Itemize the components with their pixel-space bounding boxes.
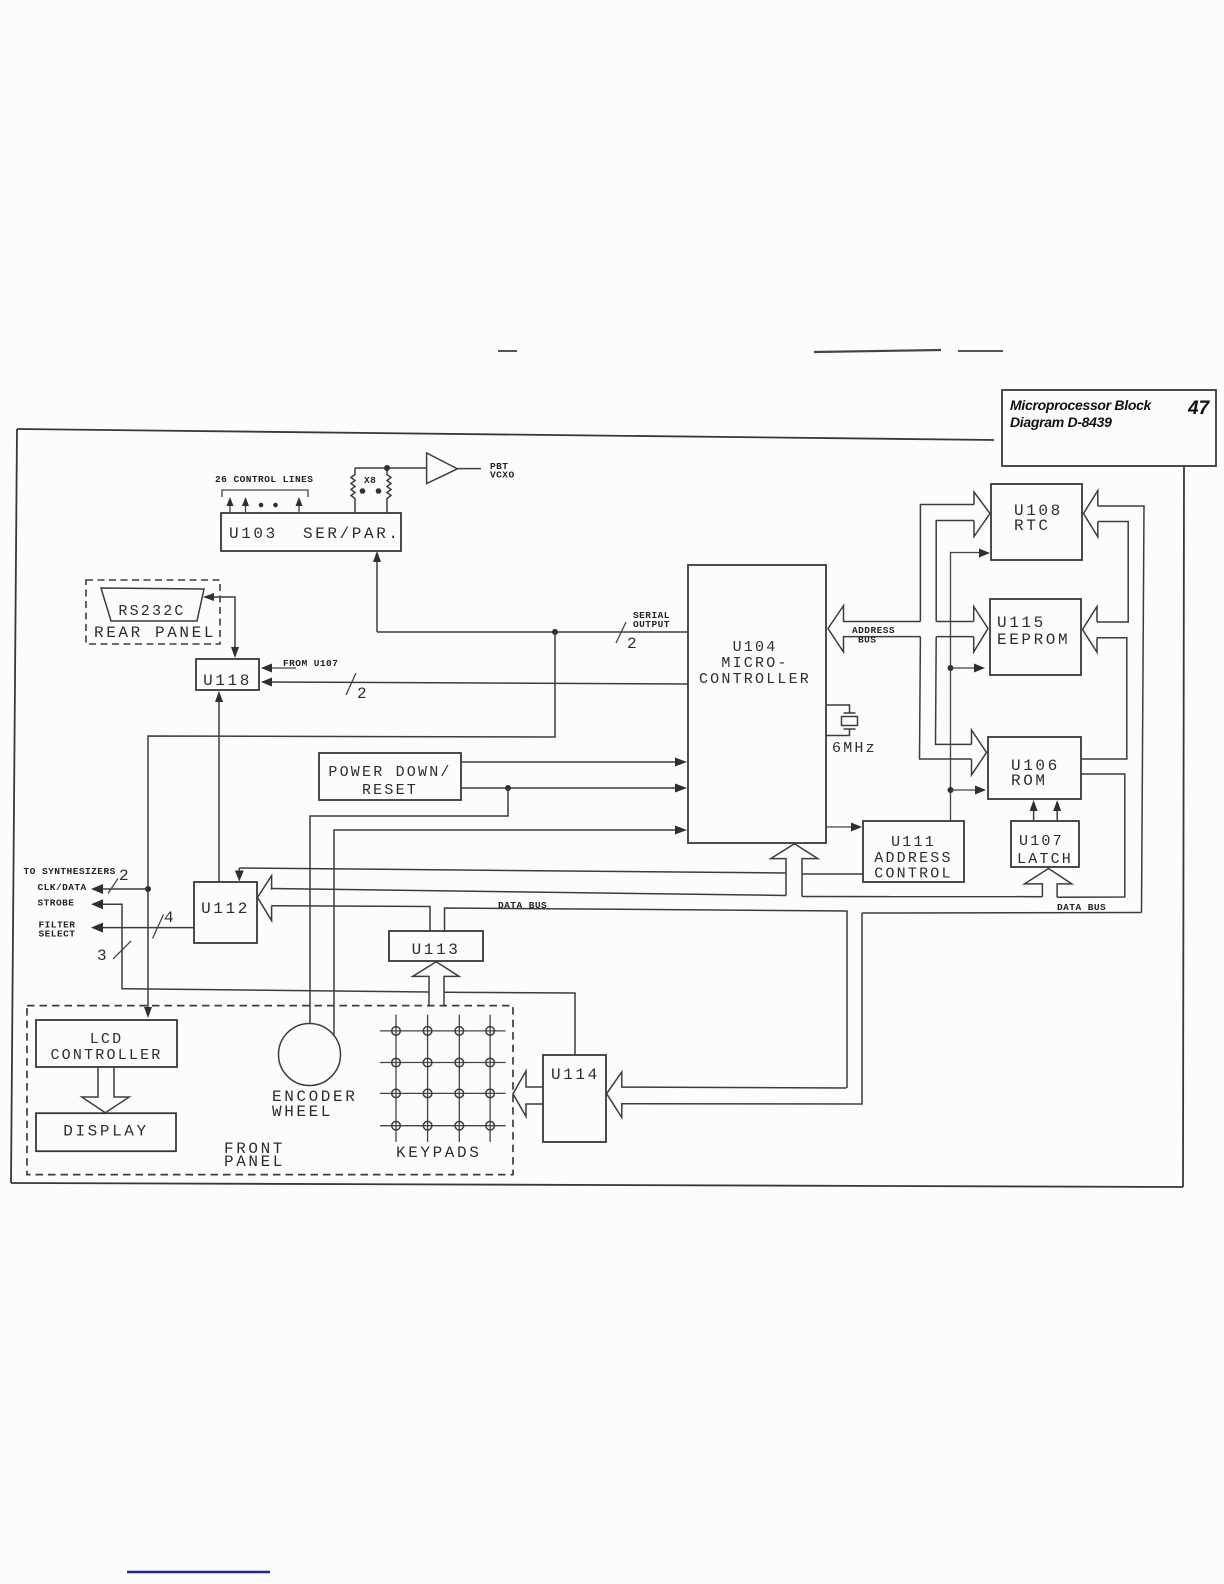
svg-text:CONTROLLER: CONTROLLER	[50, 1047, 162, 1064]
address bus riser inner up to U108	[936, 521, 974, 622]
svg-text:RTC: RTC	[1014, 517, 1051, 535]
amp output wire	[457, 468, 481, 470]
junction dot CLK/DATA tap	[145, 886, 151, 892]
svg-text:U107: U107	[1019, 833, 1064, 850]
keypad grid vertical lines	[395, 1015, 397, 1142]
junction dot select U106	[948, 787, 954, 793]
hollow arrow LCD to DISPLAY	[82, 1067, 129, 1112]
junction dot at transformer output	[384, 465, 390, 471]
svg-text:U118: U118	[203, 672, 252, 690]
hollow arrow into U113 bottom	[413, 962, 459, 1007]
box U112	[194, 882, 257, 943]
crystal plates	[844, 712, 856, 714]
select tap into U115	[951, 667, 980, 669]
wire up into U118 bottom	[218, 695, 220, 882]
keypad switch circles	[392, 1027, 495, 1130]
data bus U115-U106 link	[1081, 638, 1127, 759]
svg-text:LCD: LCD	[90, 1031, 124, 1048]
slash 4 marker	[153, 915, 164, 939]
svg-text:DATA BUS: DATA BUS	[1057, 902, 1106, 913]
control line arrow 2	[245, 501, 247, 513]
svg-text:2: 2	[627, 635, 637, 653]
ellipsis dots between arrows	[259, 503, 264, 508]
wire CLK/DATA	[97, 888, 148, 890]
address bus channel lower right segment	[936, 636, 974, 638]
transformer top wire	[355, 467, 426, 469]
box U115	[990, 599, 1081, 675]
box LCD CONTROLLER	[36, 1020, 177, 1067]
svg-text:U115: U115	[997, 614, 1046, 632]
address bus riser outer up to U108	[920, 505, 974, 622]
transformer X8 left winding	[351, 468, 355, 513]
address bus channel upper right segment	[936, 621, 974, 623]
arrowhead down into U112 top	[238, 868, 240, 877]
svg-text:REAR PANEL: REAR PANEL	[94, 624, 216, 642]
svg-text:2: 2	[357, 685, 367, 703]
box U107	[1011, 821, 1079, 867]
svg-text:STROBE: STROBE	[38, 898, 75, 909]
title box	[1002, 390, 1216, 466]
svg-text:CONTROL: CONTROL	[874, 866, 952, 883]
bracket over control-line arrows	[222, 490, 308, 497]
svg-text:TO SYNTHESIZERS: TO SYNTHESIZERS	[24, 866, 116, 877]
wire encoder B to U104 input 3	[334, 830, 681, 1036]
stray scan mark center	[814, 350, 941, 352]
data bus upper lane mid segment	[802, 896, 1042, 898]
crystal wiring loop	[826, 705, 850, 713]
svg-text:U111: U111	[891, 834, 936, 851]
stray scan mark right	[958, 350, 1003, 352]
control line arrow 1	[229, 501, 231, 513]
dashed box FRONT PANEL	[27, 1006, 513, 1175]
slash 2 marker on serial line	[616, 622, 626, 643]
hollow arrow into U114 right from data bus	[607, 913, 862, 1118]
junction dot serial branch	[552, 629, 558, 635]
svg-text:U103: U103	[229, 525, 278, 543]
select line vertical U111 to U108	[951, 553, 985, 822]
select tap into U106	[951, 789, 981, 791]
svg-text:U113: U113	[412, 941, 461, 959]
svg-text:POWER DOWN/: POWER DOWN/	[328, 764, 451, 781]
hollow arrow out of U114 left toward keypads	[513, 1071, 543, 1117]
outer border left	[11, 429, 17, 1183]
svg-text:DISPLAY: DISPLAY	[63, 1123, 148, 1141]
wire serial output from U104	[377, 631, 688, 633]
wire stub shaft to U111	[802, 873, 863, 875]
arrowhead into LCD controller top	[144, 1007, 152, 1018]
hollow arrow into U115 right	[1083, 607, 1098, 653]
wire U107 to U106 pin 1	[1033, 804, 1035, 821]
wire U111 feed behind bus to U112	[239, 868, 786, 873]
box U113	[389, 931, 483, 961]
wire U104 to U111	[826, 826, 856, 828]
transformer X8 right winding	[387, 468, 391, 513]
dashed box REAR PANEL	[86, 580, 220, 644]
slash 2 marker CLK/DATA	[108, 879, 118, 894]
svg-text:KEYPADS: KEYPADS	[396, 1144, 481, 1162]
svg-text:MICRO-: MICRO-	[721, 655, 788, 672]
hollow arrow into U112 right	[258, 876, 272, 921]
arrowhead into U118 top	[231, 647, 239, 658]
hollow arrowhead into U106 left	[972, 730, 987, 775]
svg-text:4: 4	[164, 909, 174, 927]
connector trapezoid RS232C	[101, 588, 204, 621]
wire serial into U103 bottom	[376, 556, 378, 632]
svg-text:VCXO: VCXO	[490, 470, 515, 481]
slash 2 marker	[346, 673, 356, 695]
stray scan mark left	[498, 350, 517, 352]
outer border top	[17, 429, 994, 440]
svg-text:U114: U114	[551, 1066, 600, 1084]
wire PD/R to U104 input 2	[461, 787, 681, 789]
wire from U118 to RS232C	[208, 597, 235, 656]
svg-text:U112: U112	[201, 900, 250, 918]
wire FILTER SELECT from U112	[97, 927, 194, 929]
data bus upper lane left segment	[272, 889, 786, 896]
svg-text:SELECT: SELECT	[39, 929, 76, 940]
svg-text:ROM: ROM	[1011, 772, 1048, 790]
wire U107 to U106 pin 2	[1056, 804, 1058, 821]
data bus U108-U115 link	[1097, 522, 1128, 623]
svg-text:LATCH: LATCH	[1017, 851, 1073, 868]
box U114	[543, 1055, 606, 1142]
box U108	[991, 484, 1082, 560]
box U106	[988, 737, 1081, 799]
svg-text:X8: X8	[364, 475, 376, 486]
svg-text:Diagram D-8439: Diagram D-8439	[1010, 414, 1112, 430]
svg-text:EEPROM: EEPROM	[997, 631, 1070, 649]
svg-text:U104: U104	[733, 639, 778, 656]
svg-text:OUTPUT: OUTPUT	[633, 619, 670, 630]
wire PD/R to U104 input 1	[461, 761, 681, 763]
data bus lower lane U113 riser segment	[445, 908, 848, 1088]
box POWER DOWN/RESET	[319, 753, 461, 800]
data bus lower lane to U113 drop	[272, 906, 430, 931]
junction dot select U115	[948, 665, 954, 671]
box U104	[688, 565, 826, 843]
hollow arrowhead into U115 left	[974, 607, 988, 653]
svg-text:WHEEL: WHEEL	[272, 1103, 333, 1121]
arrowhead select into U108	[979, 549, 990, 558]
svg-text:SER/PAR.: SER/PAR.	[303, 525, 401, 543]
data bus U106 lower pin link	[1057, 774, 1125, 897]
box U118	[196, 659, 259, 690]
blue pen mark bottom left	[127, 1571, 270, 1573]
outer border bottom	[11, 1183, 1183, 1187]
svg-text:BUS: BUS	[858, 635, 876, 646]
svg-text:47: 47	[1187, 398, 1211, 419]
slash 3 marker	[113, 941, 131, 959]
crystal body	[842, 717, 858, 726]
keypad grid horizontal lines	[380, 1030, 506, 1032]
svg-text:PANEL: PANEL	[224, 1153, 285, 1171]
box DISPLAY	[36, 1113, 176, 1151]
wire STROBE from U114 top	[444, 992, 575, 1055]
wire encoder A to PD/R junction	[310, 788, 508, 1024]
hollow arrow into U108 right	[1084, 491, 1098, 537]
svg-text:2: 2	[119, 867, 129, 885]
box U111	[863, 821, 964, 882]
encoder wheel circle	[279, 1024, 341, 1086]
svg-text:ADDRESS: ADDRESS	[874, 850, 952, 867]
svg-text:CLK/DATA: CLK/DATA	[38, 882, 87, 893]
wire FROM U107 into U118	[266, 667, 296, 669]
data bus lower lane right segment	[862, 912, 1142, 915]
hollow arrowhead into U108 left	[974, 492, 990, 537]
box U103	[221, 513, 401, 551]
address bus arrow into U104	[828, 606, 920, 652]
svg-text:3: 3	[97, 947, 107, 965]
svg-text:Microprocessor Block: Microprocessor Block	[1010, 397, 1153, 413]
address bus riser inner down to U106	[936, 637, 972, 745]
junction dot on PD/R line	[505, 785, 511, 791]
svg-text:RS232C: RS232C	[118, 603, 185, 620]
address bus riser outer down to U106	[920, 637, 972, 759]
svg-text:6MHz: 6MHz	[832, 740, 877, 757]
data bus outer line right	[1098, 506, 1144, 913]
hollow arrow into U107 bottom	[1025, 869, 1072, 898]
wire serial branch down-left to LCD column	[148, 632, 555, 1014]
hollow arrow into U104 bottom	[771, 844, 818, 897]
svg-text:RESET: RESET	[362, 782, 418, 799]
svg-text:26 CONTROL LINES: 26 CONTROL LINES	[215, 474, 313, 485]
control line arrow 3	[298, 501, 300, 513]
wire 2-line from U104 into U118	[266, 682, 688, 684]
transformer core dots	[360, 488, 366, 494]
svg-text:CONTROLLER: CONTROLLER	[699, 671, 811, 688]
outer border right	[1183, 466, 1184, 1187]
buffer amp triangle	[427, 453, 458, 484]
